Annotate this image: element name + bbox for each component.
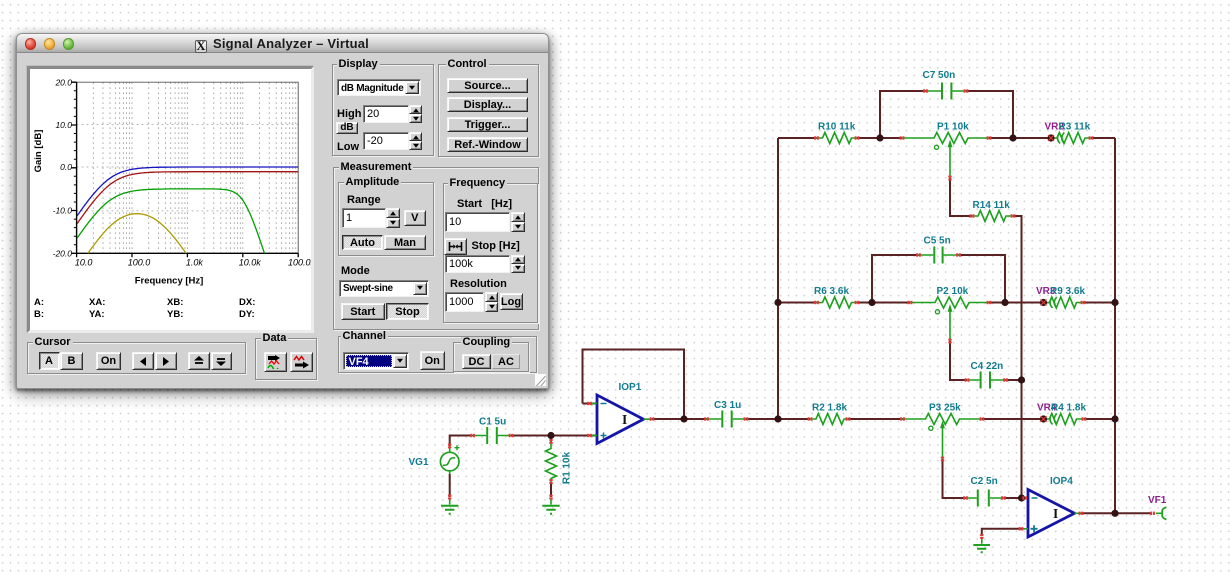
svg-text:XB:: XB:: [167, 297, 183, 308]
svg-text:P2 10k: P2 10k: [937, 286, 969, 297]
svg-text:VF1: VF1: [1148, 495, 1167, 506]
wire IOP1 out to C3: [652, 418, 707, 420]
wire row1 seg c: [989, 137, 1051, 139]
node C4 center column: [1018, 376, 1025, 383]
svg-text:10.0k: 10.0k: [239, 258, 262, 268]
wire left bus: [777, 138, 779, 419]
wire row3 seg d: [1084, 418, 1115, 420]
svg-text:R1 10k: R1 10k: [562, 451, 573, 484]
voltage pin VR3 hook: [1050, 297, 1057, 308]
svg-text:R14 11k: R14 11k: [973, 200, 1011, 211]
wire IOP4 out to VF1: [1081, 512, 1152, 514]
node right bus row3: [1111, 415, 1118, 422]
wire row3 seg a: [778, 418, 810, 420]
wire P3 wiper to C2: [943, 459, 966, 498]
node right bus output: [1111, 510, 1118, 517]
wire IOP4 plus input to ground: [982, 529, 1022, 535]
svg-text:IOP1: IOP1: [619, 382, 642, 393]
svg-text:C4 22n: C4 22n: [971, 361, 1004, 372]
svg-text:R2 1.8k: R2 1.8k: [812, 403, 847, 414]
svg-text:I: I: [622, 412, 627, 427]
wire C5 left loop: [872, 255, 919, 303]
svg-text:0.0: 0.0: [60, 162, 72, 172]
capacitor C1 5u: [473, 427, 512, 444]
resistor R14 11k: [972, 211, 1013, 222]
wire row2 seg c: [989, 302, 1044, 304]
wire C2 to IOP4 inverting input: [1003, 497, 1028, 499]
wire C3 to left bus: [746, 418, 778, 420]
wire R1 bottom to ground: [550, 482, 552, 497]
svg-text:XA:: XA:: [89, 297, 105, 308]
potentiometer P2 10k: [910, 297, 989, 341]
resistor R2 1.8k: [810, 414, 848, 425]
node C5 right: [1001, 299, 1008, 306]
resistor R9 3.6k: [1044, 297, 1084, 308]
wire row2 seg b: [857, 302, 910, 304]
node right bus row2: [1111, 299, 1118, 306]
wire row1 seg d: [1091, 137, 1115, 139]
capacitor C7 50n: [926, 83, 967, 100]
node left bus row2: [774, 299, 781, 306]
svg-text:C1 5u: C1 5u: [479, 417, 506, 428]
ground at IOP4 plus input: [973, 545, 990, 552]
Control group: [438, 64, 539, 157]
svg-text:I: I: [1053, 506, 1058, 521]
svg-text:10.0: 10.0: [75, 258, 93, 268]
wire row2 seg d: [1083, 302, 1115, 304]
svg-text:P3 25k: P3 25k: [929, 403, 961, 414]
svg-text:C7 50n: C7 50n: [923, 70, 956, 81]
wire C7 right loop: [966, 91, 1013, 138]
svg-text:20.0: 20.0: [54, 77, 72, 87]
svg-text:P1 10k: P1 10k: [937, 122, 969, 133]
svg-text:VG1: VG1: [409, 457, 429, 468]
wire P1 wiper to R14: [950, 178, 972, 216]
component pin marks: [448, 89, 1155, 539]
node VR2 row1: [1047, 134, 1054, 141]
ground under VG1: [441, 506, 458, 514]
svg-text:R6 3.6k: R6 3.6k: [814, 286, 849, 297]
wire row2 seg a: [778, 302, 817, 304]
svg-text:B:: B:: [34, 309, 44, 320]
Channel group: [338, 336, 537, 374]
resistor R1 10k: [546, 442, 557, 505]
svg-text:A:: A:: [34, 297, 44, 308]
svg-text:Frequency [Hz]: Frequency [Hz]: [135, 276, 204, 287]
svg-text:R9 3.6k: R9 3.6k: [1050, 286, 1085, 297]
svg-text:DY:: DY:: [239, 309, 255, 320]
resistor R10 11k: [817, 133, 858, 144]
svg-text:R4 1.8k: R4 1.8k: [1051, 403, 1086, 414]
svg-text:R10 11k: R10 11k: [818, 122, 856, 133]
voltage pin VR2 hook: [1058, 133, 1065, 144]
capacitor C4 22n: [967, 372, 1006, 389]
wire IOP1 feedback to minus input: [583, 403, 598, 405]
svg-text:Gain [dB]: Gain [dB]: [33, 130, 44, 173]
Data group: [255, 338, 317, 380]
svg-text:1.0k: 1.0k: [186, 258, 204, 268]
node C7 right: [1009, 134, 1016, 141]
wire IOP1 feedback loop: [583, 350, 685, 420]
capacitor C5 5n: [919, 247, 959, 264]
svg-text:IOP4: IOP4: [1050, 476, 1073, 487]
svg-text:-10.0: -10.0: [53, 206, 73, 216]
wire C1 to IOP1 plus input: [511, 435, 597, 437]
ground under R1: [542, 506, 559, 514]
op-amp IOP1: [590, 395, 653, 444]
svg-text:YB:: YB:: [167, 309, 183, 320]
resistor R4 1.8k: [1044, 414, 1084, 425]
voltage pin VF1 terminal: [1156, 507, 1167, 520]
wire row1 seg a: [778, 137, 817, 139]
node C5 left: [868, 299, 875, 306]
wire P2 wiper to C4: [950, 341, 967, 380]
svg-text:100.0: 100.0: [128, 258, 151, 268]
wire C5 right loop: [959, 255, 1006, 303]
svg-text:DX:: DX:: [239, 297, 255, 308]
wire right bus: [1114, 138, 1116, 513]
Cursor group: [27, 342, 246, 374]
node C1 R1 IOP1 junction: [547, 432, 554, 439]
node VR4 row3: [1040, 415, 1047, 422]
potentiometer P1 10k: [902, 133, 989, 179]
op-amp IOP4: [982, 490, 1081, 544]
potentiometer P3 25k: [903, 414, 983, 460]
node IOP1 feedback junction: [680, 415, 687, 422]
node C7 left: [876, 134, 883, 141]
svg-text:-20.0: -20.0: [53, 249, 73, 259]
wire row3 seg b: [848, 418, 903, 420]
Frequency subgroup: [443, 183, 538, 323]
wire VG1 to C1: [450, 436, 473, 447]
Amplitude subgroup: [338, 182, 434, 256]
node left bus row3: [774, 415, 781, 422]
svg-text:100.0k: 100.0k: [288, 258, 311, 268]
voltage generator VG1: [440, 445, 459, 504]
Coupling subgroup: [453, 342, 529, 373]
capacitor C3 1u: [707, 411, 747, 428]
resistor R6 3.6k: [817, 297, 858, 308]
svg-text:C2 5n: C2 5n: [971, 476, 998, 487]
wire C7 left loop: [880, 91, 926, 138]
Display group: [332, 64, 434, 156]
svg-text:C5 5n: C5 5n: [924, 236, 951, 247]
node VR3 row2: [1040, 299, 1047, 306]
wire row1 seg b: [857, 137, 902, 139]
svg-text:C3 1u: C3 1u: [714, 400, 741, 411]
svg-text:YA:: YA:: [89, 309, 105, 320]
wire node to R1 top: [550, 436, 552, 442]
voltage pin VR4 hook: [1050, 414, 1057, 425]
capacitor C2 5n: [966, 490, 1004, 507]
Measurement group: [333, 167, 539, 330]
wire VG1 to ground: [449, 474, 451, 497]
svg-text:10.0: 10.0: [55, 120, 72, 130]
resistor R3 11k: [1051, 133, 1091, 144]
wire C4 to center column: [1006, 379, 1022, 381]
svg-text:R3 11k: R3 11k: [1059, 122, 1091, 133]
node IOP4 inverting input: [1018, 494, 1025, 501]
wire R14 to center column: [1013, 216, 1022, 498]
wire row3 seg c: [982, 418, 1044, 420]
